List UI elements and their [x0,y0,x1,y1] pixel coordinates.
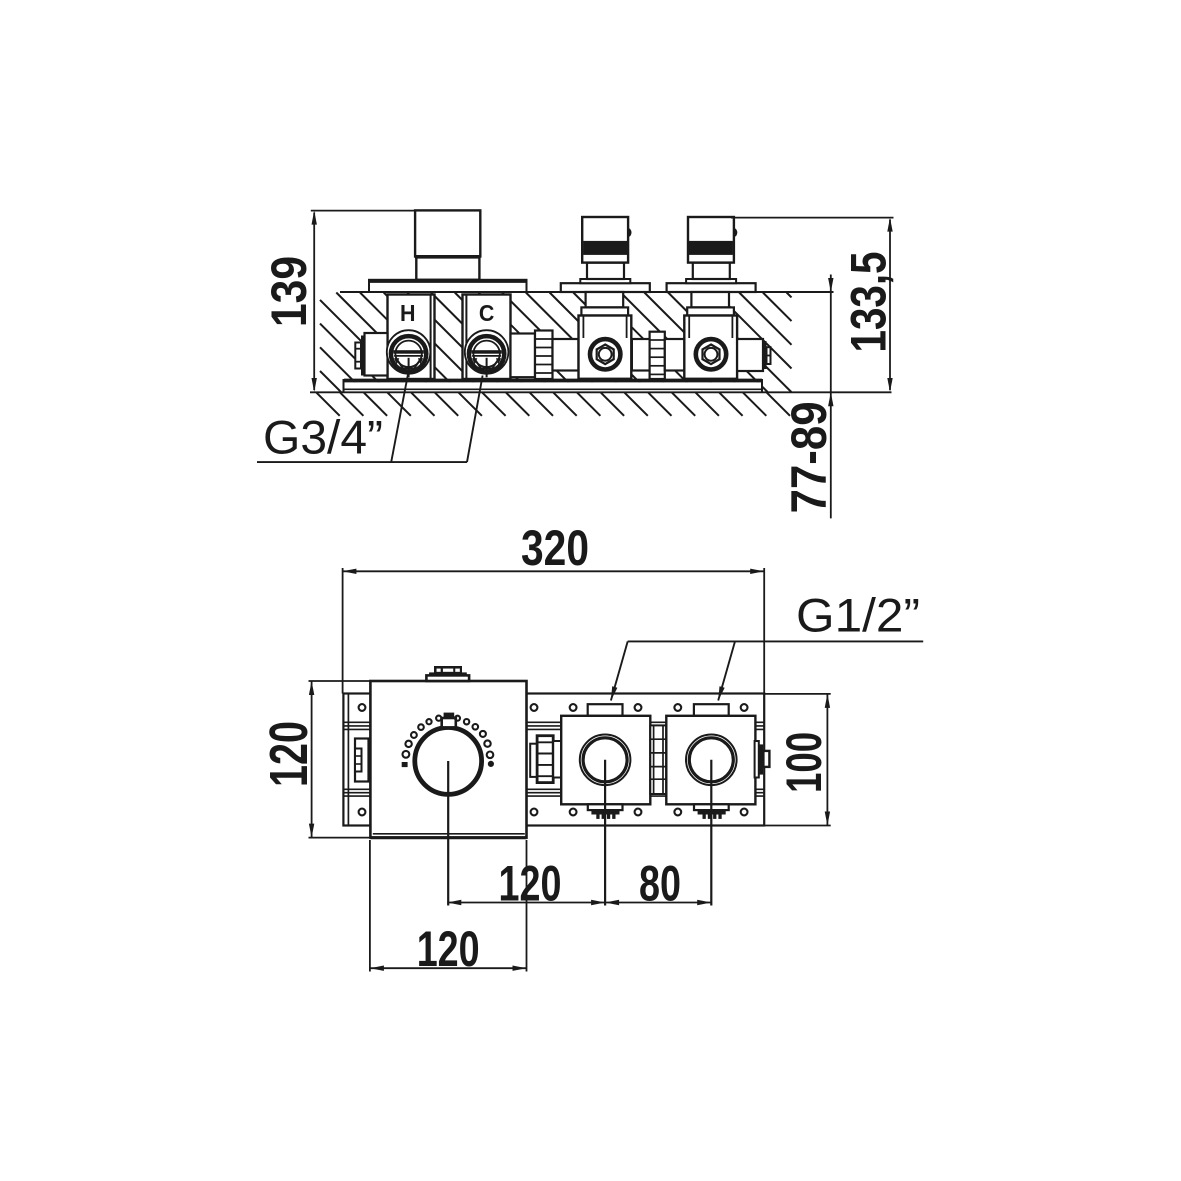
thermostat cartridge stem lower [416,257,479,280]
knob window right [455,669,460,672]
hot inlet block [388,295,435,380]
knob window left [437,669,441,672]
knurled nut mid [650,332,665,379]
shut-off valve 2 section [667,217,756,379]
wall top surface line [340,291,834,293]
left inlet nut [365,333,388,376]
shut-off valve 2 front [666,704,755,905]
coupling sleeve front [553,741,561,778]
hot inlet valve seat G3/4 [387,330,431,377]
connector piece mid [665,339,685,371]
right rail stub [755,741,759,778]
right end plug [767,347,771,364]
coupling sleeve [511,334,536,378]
left rail nipple [355,739,369,782]
dimension 320 [342,570,764,572]
svg-text:100: 100 [776,732,832,793]
svg-text:G1/2”: G1/2” [796,589,920,642]
wall section hatching (upper band) [320,293,792,393]
dimension 139 [313,213,315,391]
wall hatching strip below plate [316,393,790,416]
coupling washer [530,744,537,777]
svg-text:120: 120 [259,721,319,787]
svg-text:80: 80 [639,856,681,912]
plate bottom / extension line [310,391,892,393]
dial top stop [444,713,455,718]
dimension 100 right [826,694,828,826]
knob step upper [434,666,462,673]
dimension 120 (plate width) [370,967,527,969]
knurled coupling nut [535,331,553,380]
label G1/2" with leaders [628,640,924,642]
cold inlet block [463,295,511,380]
svg-text:120: 120 [417,921,480,977]
dimension 120 left [311,681,313,838]
svg-text:77-89: 77-89 [781,401,837,513]
dimension 133,5 [889,220,891,391]
mounting rail front view [343,694,764,826]
dial centre line / extension [447,761,449,906]
knob step middle (dark) [429,672,467,675]
thermostat dial [415,728,482,795]
left rail plug [355,749,362,772]
thermostat square body [370,681,526,838]
svg-text:133,5: 133,5 [841,252,897,353]
rail screw holes [359,704,366,711]
svg-text:H: H [400,300,416,326]
right rail bar (dark) [759,744,763,774]
svg-text:120: 120 [499,856,562,912]
svg-text:C: C [479,300,495,326]
thermostat flange plate [369,280,527,292]
cold inlet valve seat G3/4 [465,330,509,377]
connector piece [553,339,579,371]
mounting plate section [344,382,762,392]
shut-off valve 1 front [561,704,650,905]
knob step lower [426,675,469,681]
dimension 77-89 [830,275,832,519]
right rail plug front [763,751,769,767]
shut-off valve 1 section [561,217,650,379]
inter-valve slat piece [650,725,666,794]
right end coupling [737,339,763,371]
knob window middle [443,669,453,672]
label G3/4" with leaders [257,461,467,463]
svg-text:139: 139 [261,256,317,327]
dial scale dots [403,751,410,758]
dimension 120 (dial to valve1) and 80 [447,902,711,904]
svg-text:320: 320 [521,520,589,576]
coupling sleeve mid [632,339,650,371]
knurled nut front [537,736,553,783]
svg-text:G3/4”: G3/4” [263,411,383,464]
thermostat cartridge stem upper [415,210,480,256]
left inlet plug [355,343,361,369]
